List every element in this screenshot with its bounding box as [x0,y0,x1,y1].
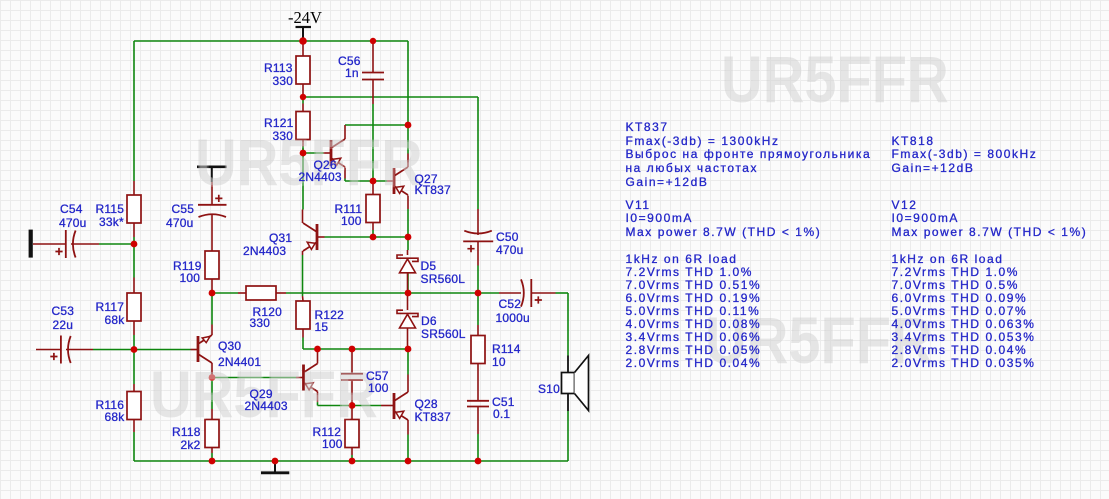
wire R111 bottom stub [372,230,374,237]
wire Q30 collector down to y=377.5 node [211,375,213,378]
capacitor C55 470u polarized [198,204,227,206]
wire output y=293 to C52 [478,292,499,294]
capacitor C54 470u polarized [65,230,67,258]
ground symbol above C55 [197,166,227,169]
wire output node down to R114 [477,293,479,325]
capacitor C52 1000u polarized [521,279,524,306]
wire R121 top stub [302,97,304,104]
pin R113 leads [302,44,304,56]
diode D6 SR560L [397,310,418,316]
capacitor C50 470u polarized [464,231,492,234]
watermark UR5FFR lower-left [150,361,378,427]
wire speaker column upper x=568 [567,293,569,356]
pin C52 leads [499,292,521,294]
wire left rail C54 node to R117 [133,237,135,278]
wire Q28 collector up to y=349 node [407,349,409,375]
resistor R112 100 [345,420,359,448]
pin R120 leads [238,292,246,294]
wire R122 bottom corner to y=349 rail [302,338,304,350]
transistor Q27 KT837 [393,168,396,194]
transistor Q29 2N4403 [302,365,305,391]
wire C51 bottom to ground rail [477,434,479,461]
pin C53 leads [36,349,61,351]
pin R118 leads [211,409,213,420]
pin R117 leads [133,278,135,294]
wire R119 node y=293 to R120 [212,292,238,294]
pin C54 leads [33,243,66,245]
pin R116 leads [133,384,135,392]
wire Q31 base to R111/D5 node y=237 [325,236,409,238]
wire x=408 Q27 emitter node to D5 [407,237,409,250]
pin Q28 leads [381,405,393,407]
ground symbol bottom rail [274,461,276,472]
pin R114 leads [477,325,479,335]
wire x=478 down to C50 [477,97,479,209]
wire left rail R116 bottom [133,432,135,461]
pin Q26 leads [324,152,331,154]
wire y=97 R113/R121 node to C50 column [303,96,478,98]
resistor R121 330 [296,112,310,140]
wire R118 bottom stub [211,453,213,461]
transistor Q31 2N4403 [316,224,319,250]
pin R115 leads [133,181,135,195]
pin R122 leads [302,296,305,301]
wire left rail R117 to R116 [133,335,135,384]
wire Q29 collector stub [317,349,319,352]
wire ground rail y=461 [134,460,568,462]
wire R121 bottom stub [302,147,304,154]
capacitor C56 1n [362,72,384,74]
watermark UR5FFR lower-right [705,307,933,373]
pin R111 leads [372,181,374,195]
resistor R119 100 [205,251,219,279]
capacitor C51 0.1 [467,400,489,402]
pin R112 leads [351,409,353,420]
wire Q29 emitter stub [317,402,319,406]
component labels [264,62,293,74]
wire input C53 to Q30 base y=349.5 [93,349,191,351]
wire y=181 Q26 emitter to C56/Q27 base [344,179,346,182]
wire Q27 emitter down to y=237 [407,209,409,237]
resistor R118 2k2 [205,420,219,448]
wire R112 bottom stub [351,455,353,461]
watermark UR5FFR upper-left [195,129,423,195]
transistor Q26 2N4403 [330,140,333,166]
wire y=125 Q26 collector to x=408 [345,124,408,126]
pin Q29 leads [296,377,303,379]
speaker S10 [562,373,575,394]
label -24V [288,10,322,26]
capacitor C53 22u polarized [60,336,62,364]
wire x=212 down to R118 [211,378,213,410]
capacitor C57 100 [341,373,363,375]
pin Q30 leads [191,349,198,351]
node text column KT818 [892,135,935,147]
resistor R120 330 [246,286,276,300]
wire C52 right to speaker column [556,292,569,294]
wire x=408 D5 to output node [407,273,409,294]
pin Q27 leads [387,180,393,182]
resistor R115 33k [127,195,141,223]
input terminal at C54 [29,230,33,258]
wire C56 bottom x=373 [372,104,374,181]
transistor Q28 KT837 [393,393,396,419]
node text column KT837 [626,121,669,133]
wire R112 top stub [351,406,353,410]
resistor R116 68k [127,392,141,420]
wire Q26 base to R121 node [302,147,304,154]
resistor R113 330 [296,56,310,84]
wire R120 to output node y=293 [286,292,478,294]
pin C55 leads [211,182,213,205]
pin Q31 leads [317,236,325,238]
wire y=377.5 Q30 collector to Q29 base [212,377,296,379]
resistor R111 100 [366,195,380,223]
pin C51 bottom lead [477,407,479,435]
wire left rail upper x=134 [133,41,135,181]
wire speaker column lower x=568 [567,411,569,461]
watermark UR5FFR top-right [721,46,949,112]
wire y=405.5 Q29 emitter to C57/Q28 base [318,405,382,407]
wire x=408 top rail down to Q26/Q27 collectors [407,41,409,125]
pin R121 leads [302,104,304,112]
wire y=349 R122/Q29/C57/D6 node [303,348,408,350]
power symbol -24V [296,26,312,28]
resistor R117 68k [127,293,141,321]
pin R119 leads [211,217,213,251]
pin C50 leads [477,209,479,235]
wire Q31 emitter down x=302.5 [302,255,304,296]
wire top rail -24V y=41 [134,40,408,42]
wire Q30 emitter up to y=293 node [211,293,213,325]
wire Q28 emitter down to ground rail [407,435,409,462]
pin D5 anode lead [407,250,409,255]
diode D5 SR560L [397,255,418,261]
pin C56 leads [372,44,374,73]
transistor Q30 2N4401 [197,336,200,362]
resistor R114 10 [471,336,485,364]
wire x=303 R121 node down to Q31 collector [302,153,304,210]
pin D6 leads [407,293,409,310]
pin C57 leads [351,349,353,374]
resistor R122 15 [296,301,310,329]
junction dots [299,37,307,45]
